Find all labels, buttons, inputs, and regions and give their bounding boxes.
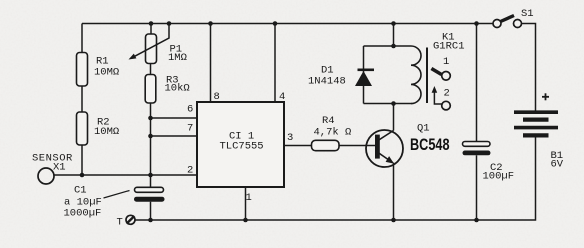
wire R3 down to C1 — [150, 103, 152, 187]
node pin7 tee — [148, 134, 153, 139]
svg-text:8: 8 — [214, 91, 220, 103]
resistor R4 4.7k — [312, 115, 352, 151]
wire C2 to bottom rail — [476, 155, 478, 220]
wire pin 1 to bottom rail — [245, 187, 247, 220]
node pin 8 on rail — [208, 21, 213, 26]
svg-text:1N4148: 1N4148 — [308, 76, 346, 88]
sensor X1 — [32, 153, 73, 185]
wire pin 4 — [274, 24, 276, 103]
wire battery to bottom rail — [135, 138, 536, 221]
svg-text:10MΩ: 10MΩ — [94, 126, 119, 138]
svg-text:4: 4 — [279, 91, 285, 103]
svg-text:BC548: BC548 — [410, 135, 450, 154]
svg-text:S1: S1 — [521, 8, 534, 20]
wire loop bottom — [364, 103, 412, 105]
svg-text:R4: R4 — [322, 115, 335, 127]
P1 wiper arrow — [129, 24, 170, 60]
capacitor C1 — [64, 185, 165, 220]
capacitor C2 — [463, 142, 515, 183]
svg-text:10MΩ: 10MΩ — [94, 67, 119, 79]
svg-text:2: 2 — [187, 165, 193, 177]
svg-text:1: 1 — [443, 56, 449, 68]
svg-text:2: 2 — [444, 88, 450, 100]
svg-text:6: 6 — [187, 104, 193, 116]
battery B1 6V — [514, 93, 564, 170]
wire P1 to R3 — [150, 64, 152, 76]
wire rail down to relay loop — [393, 24, 395, 47]
svg-text:4,7k Ω: 4,7k Ω — [314, 127, 352, 139]
node C2 bottom — [474, 218, 479, 223]
svg-text:3: 3 — [287, 132, 293, 144]
wire sensor to IC pin 2 — [54, 174, 197, 176]
svg-text:1: 1 — [246, 192, 252, 204]
wire loop top — [364, 45, 412, 47]
wire switch to battery top — [522, 24, 536, 111]
node loop top — [391, 44, 396, 49]
potentiometer P1 1M — [146, 34, 187, 64]
svg-text:C1: C1 — [74, 185, 87, 197]
wire top rail — [82, 23, 493, 25]
node pin 1 bottom — [243, 218, 248, 223]
svg-text:G1RC1: G1RC1 — [433, 41, 465, 53]
node P1 top — [149, 21, 154, 26]
node P1 wiper on rail — [167, 21, 172, 26]
svg-text:10kΩ: 10kΩ — [165, 83, 190, 95]
node R2/sensor junction — [80, 173, 85, 178]
wire pin 6 — [151, 117, 198, 119]
svg-text:TLC7555: TLC7555 — [220, 141, 264, 153]
transistor Q1 BC548 — [366, 123, 450, 168]
node sensor/C1 junction — [148, 173, 153, 178]
svg-text:6V: 6V — [551, 159, 564, 171]
wire rail down to C2 — [476, 24, 478, 142]
op-amp U1 : IC CI1 TLC7555 box — [197, 102, 284, 187]
node C2 top on rail — [474, 21, 479, 26]
svg-text:X1: X1 — [53, 162, 66, 174]
svg-text:Q1: Q1 — [417, 123, 430, 135]
node pin6 tee — [148, 116, 153, 121]
node C1 bottom — [148, 218, 153, 223]
node emitter/rail — [391, 218, 396, 223]
wire emitter down to rail — [393, 163, 395, 221]
relay contact 2 — [432, 86, 451, 110]
resistor R3 10k — [145, 75, 190, 104]
wire collector up to relay — [393, 104, 395, 131]
svg-text:7: 7 — [187, 123, 193, 135]
relay contact 1 — [431, 56, 450, 80]
wire R2 to sensor line — [81, 145, 83, 175]
node relay branch on top rail — [391, 21, 396, 26]
wire pin 7 — [151, 135, 198, 137]
diode D1 1N4148 — [308, 46, 374, 104]
resistor R2 10M — [77, 112, 120, 145]
svg-text:1000µF: 1000µF — [64, 208, 102, 220]
svg-text:100µF: 100µF — [483, 171, 515, 183]
node loop bottom — [391, 101, 396, 106]
wire pin 8 — [210, 24, 212, 103]
wire C1 to bottom rail — [150, 202, 152, 220]
terminal T — [117, 215, 136, 228]
wire R1 to R2 — [81, 86, 83, 113]
node pin 4 on rail — [273, 21, 278, 26]
wire rail to P1 — [150, 24, 152, 35]
svg-text:T: T — [117, 217, 123, 229]
relay K1 coil — [411, 32, 465, 104]
resistor R1 10M — [77, 53, 120, 87]
wire left column top to R1 — [81, 24, 83, 54]
wire pin 3 to R4 — [284, 145, 312, 147]
switch S1 — [493, 8, 534, 28]
svg-text:1MΩ: 1MΩ — [168, 52, 187, 64]
wire R4 to base — [339, 145, 377, 147]
